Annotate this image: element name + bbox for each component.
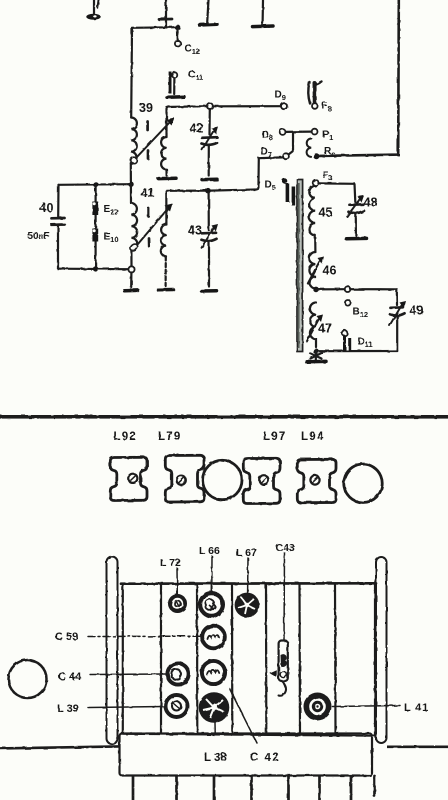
svg-text:41: 41: [141, 186, 155, 200]
frame edge left: [0, 746, 119, 748]
label L79: [158, 431, 181, 443]
coil 41 core dashes: [147, 209, 150, 247]
junction dot A: [175, 25, 181, 31]
capacitor C11: [167, 70, 203, 98]
svg-text:L92: L92: [114, 431, 137, 443]
connector tooth 4: [250, 776, 253, 800]
svg-text:46: 46: [323, 264, 337, 278]
label C44 with leader: [58, 671, 167, 683]
terminal P1: [312, 129, 334, 142]
coil former L79: [165, 455, 204, 502]
connector tooth 8: [373, 776, 376, 796]
label C59 with leader: [55, 631, 201, 643]
ground bottom right: [307, 351, 327, 362]
trimmer capacitor C44: [167, 663, 188, 684]
wire stub to C12: [176, 29, 178, 41]
box left edge with coil 39 primary winding: [131, 28, 137, 184]
wire corner to D7: [258, 157, 283, 189]
node circle left ground: [128, 266, 134, 272]
label L94: [301, 431, 324, 443]
svg-text:L 72: L 72: [160, 557, 181, 569]
label 43: [188, 224, 202, 238]
connector tooth 7: [350, 776, 353, 800]
wire box top B12: [316, 288, 397, 290]
capacitor C12 terminal: [175, 41, 200, 56]
board slot line 2: [196, 585, 199, 734]
coil 46: [309, 252, 316, 289]
label 42: [190, 122, 204, 136]
coil core L41: [304, 693, 332, 721]
separator line: [0, 415, 448, 419]
label L39 with leader: [57, 703, 165, 715]
svg-text:L97: L97: [263, 431, 286, 443]
label L97: [263, 431, 286, 443]
coil 46 arrow: [308, 257, 337, 284]
coil core L38: [199, 692, 230, 733]
wire top to junction: [132, 26, 178, 29]
wire to capacitor 40: [59, 183, 132, 186]
terminal post 4: [253, 0, 274, 27]
connector bar: [120, 734, 373, 776]
junction dot tap 46: [313, 287, 319, 293]
coil 41 tuning arrow: [129, 204, 172, 253]
chassis mounting hole left: [9, 660, 47, 698]
svg-text:L 39: L 39: [57, 703, 79, 715]
label 41: [141, 186, 155, 200]
svg-text:48: 48: [364, 196, 378, 210]
label L92: [114, 431, 137, 443]
trimmer capacitor C59: [202, 626, 225, 649]
terminal D5 pins: [265, 178, 296, 205]
svg-text:C 59: C 59: [55, 631, 78, 643]
terminal post 2: [159, 0, 172, 28]
coil 47 arrow: [307, 315, 332, 342]
label L72 with leader: [160, 557, 181, 594]
board slot line 4: [265, 585, 267, 734]
junction dot bottom tap: [313, 348, 319, 354]
svg-text:L94: L94: [301, 431, 324, 443]
coil former L94: [297, 459, 336, 502]
board right tab: [376, 557, 387, 743]
F8 feedthrough: [308, 82, 331, 114]
coil 39 tuning arrow: [131, 118, 175, 164]
connector tooth 1: [132, 776, 135, 800]
transformer link P1-Rc: [307, 139, 312, 157]
ferrite rod: [297, 180, 303, 352]
trimmer core L67: [235, 593, 260, 618]
board slot line 5: [298, 585, 301, 734]
trimmer capacitor C42: [202, 661, 225, 684]
coil 39 secondary winding: [159, 107, 177, 179]
connector tooth 5: [287, 776, 290, 800]
terminal Dn pins: [342, 330, 373, 351]
junction dot cap43: [205, 188, 211, 194]
svg-text:L 67: L 67: [236, 547, 257, 559]
trimmer capacitor 43: [202, 193, 219, 291]
node circle at cap42: [207, 103, 213, 109]
E22 E10 pin branch: [92, 184, 118, 268]
trimmer capacitor 42: [202, 109, 219, 180]
connector tooth 6: [318, 776, 321, 800]
coil 45: [309, 186, 332, 252]
svg-text:40: 40: [40, 201, 54, 215]
terminal post top-left: [86, 0, 100, 20]
label C42 leader diagonal: [230, 689, 257, 743]
svg-text:L 41: L 41: [404, 702, 429, 714]
trimmer core L39: [166, 695, 188, 717]
svg-text:45: 45: [319, 206, 333, 220]
trimmer core L72: [170, 596, 185, 611]
label L41 with leader: [333, 702, 430, 714]
mounting hole circle 2: [344, 464, 382, 503]
wire cap40 bottom: [58, 268, 128, 271]
terminal D7: [261, 147, 289, 160]
coil former L92: [110, 457, 147, 500]
terminal F3: [313, 170, 333, 186]
ground left: [125, 273, 139, 291]
svg-text:39: 39: [139, 101, 153, 115]
svg-text:C 42: C 42: [250, 752, 280, 764]
wire box bottom: [316, 350, 397, 352]
box left edge with coil 41 primary winding: [131, 184, 137, 266]
label C43 with leader: [276, 542, 295, 640]
right outer wire from top: [319, 0, 399, 156]
svg-text:50nF: 50nF: [28, 231, 50, 242]
svg-text:L 38: L 38: [204, 752, 227, 764]
coil former L97: [243, 458, 280, 503]
frame edge right: [387, 745, 448, 748]
junction dot E10 bottom: [93, 266, 98, 271]
wire coil39 to Dg: [167, 105, 281, 108]
stub D8 wire down to D7: [289, 134, 294, 155]
terminal post 3: [200, 0, 218, 25]
capacitor 40: [28, 185, 65, 269]
terminal D8: [262, 129, 286, 142]
junction dot E22 top: [93, 182, 98, 187]
terminal Rc: [313, 146, 335, 159]
board slot line 6: [334, 585, 337, 734]
connector tooth 3: [213, 776, 216, 800]
svg-text:C 44: C 44: [58, 671, 82, 683]
board slot line 3: [231, 585, 234, 734]
node circle B12 top: [345, 286, 351, 292]
wire F3 to cap48: [319, 182, 355, 185]
board outline: [121, 583, 376, 736]
wire 41 row: [166, 189, 258, 190]
svg-text:43: 43: [188, 224, 202, 238]
svg-text:C43: C43: [276, 542, 295, 554]
svg-text:L79: L79: [158, 431, 181, 443]
coil 41 secondary winding: [158, 191, 173, 290]
capacitor 48: [347, 184, 378, 239]
terminal Dg: [275, 90, 288, 110]
label L66 with leader: [199, 545, 220, 591]
capacitor C43 body: [270, 641, 288, 696]
box right side with capacitor 49: [390, 289, 424, 351]
board left tab: [107, 557, 118, 745]
connector tooth 2: [175, 776, 178, 800]
svg-text:49: 49: [410, 304, 424, 318]
wire D8 to P1: [286, 131, 312, 133]
svg-text:47: 47: [318, 322, 332, 336]
coil 47: [310, 303, 316, 348]
svg-text:L 66: L 66: [199, 545, 220, 557]
coil 39 core dashes: [146, 122, 149, 159]
junction dot 40-wire left: [128, 182, 133, 187]
mounting hole circle 1: [203, 460, 242, 499]
label 39: [139, 101, 153, 115]
board slot line 1: [160, 585, 162, 734]
svg-text:42: 42: [190, 122, 204, 136]
trimmer core L66: [200, 593, 223, 616]
label L67 with leader: [236, 547, 257, 593]
terminal B12: [345, 300, 368, 319]
